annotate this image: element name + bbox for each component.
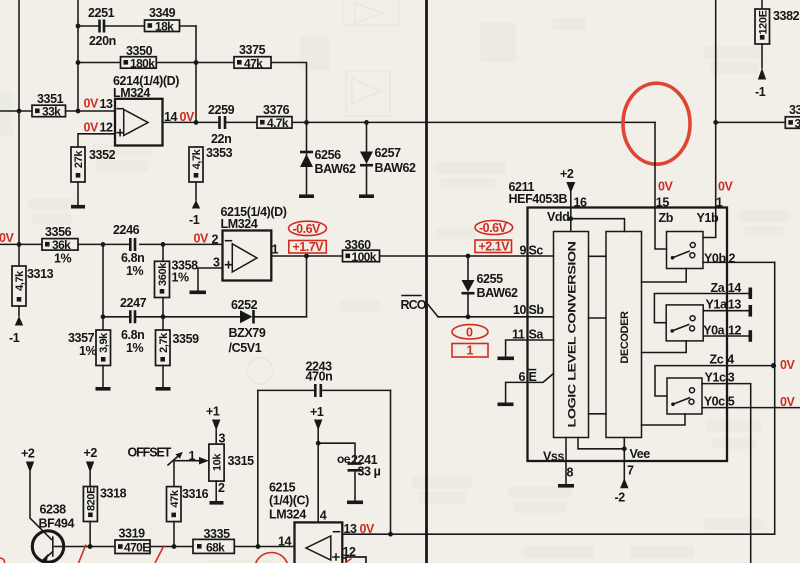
svg-text:120E: 120E bbox=[757, 10, 769, 34]
junction dots on output row bbox=[304, 120, 369, 125]
wire: 6215D output row y=256 bbox=[271, 254, 553, 259]
svg-text:6257: 6257 bbox=[375, 146, 402, 160]
svg-text:RCO: RCO bbox=[401, 298, 427, 312]
svg-text:27k: 27k bbox=[73, 150, 85, 168]
svg-text:0V: 0V bbox=[718, 180, 733, 194]
svg-text:(1/4)(C): (1/4)(C) bbox=[269, 494, 309, 508]
svg-text:68k: 68k bbox=[206, 541, 225, 555]
svg-text:-1: -1 bbox=[9, 331, 20, 345]
svg-text:47k: 47k bbox=[244, 56, 263, 70]
svg-text:8: 8 bbox=[567, 466, 574, 480]
svg-text:1: 1 bbox=[716, 196, 723, 210]
resistor R3357 3,9k 1% bbox=[68, 317, 111, 387]
svg-text:BAW62: BAW62 bbox=[477, 286, 519, 300]
svg-text:6.8n: 6.8n bbox=[121, 251, 144, 265]
resistor R3359 2,7k bbox=[156, 317, 200, 387]
svg-text:+2: +2 bbox=[560, 167, 574, 181]
red annotation -0.6V oval near 6215D bbox=[289, 221, 327, 236]
svg-text:220n: 220n bbox=[89, 34, 116, 48]
wire: 3357 branch vertical bbox=[102, 244, 104, 316]
svg-text:15: 15 bbox=[656, 196, 670, 210]
svg-text:BAW62: BAW62 bbox=[375, 161, 417, 175]
svg-text:+2.1V: +2.1V bbox=[479, 240, 511, 254]
svg-text:+1: +1 bbox=[206, 405, 220, 419]
svg-text:6215: 6215 bbox=[269, 481, 296, 495]
svg-text:-0.6V: -0.6V bbox=[293, 222, 322, 236]
supply arrow +2 for transistor collector bbox=[21, 447, 52, 540]
svg-text:360k: 360k bbox=[157, 262, 169, 286]
node: Y0c pin 5 with 0V bbox=[702, 395, 800, 410]
svg-text:Zc: Zc bbox=[710, 353, 724, 367]
svg-text:3356: 3356 bbox=[45, 225, 72, 239]
red annotation -0.6V oval near Sc bbox=[475, 221, 513, 236]
svg-text:oe: oe bbox=[337, 452, 351, 466]
node: Y1c pin 3 bbox=[702, 371, 751, 563]
svg-text:47k: 47k bbox=[169, 489, 181, 507]
ground for V6257 bbox=[359, 194, 374, 198]
pin Vss with ground bbox=[543, 438, 574, 486]
diode V6255 BAW62 bbox=[462, 256, 519, 317]
red annotation +2.1V box near Sc bbox=[475, 240, 512, 254]
node: Zc pin 4 with 0V bbox=[655, 353, 795, 397]
svg-text:6255: 6255 bbox=[477, 272, 504, 286]
svg-text:/C5V1: /C5V1 bbox=[229, 341, 262, 355]
capacitor C2241 33u electrolytic bbox=[318, 443, 380, 502]
svg-text:3318: 3318 bbox=[100, 487, 127, 501]
node: 10 Sb pin bbox=[513, 303, 544, 317]
svg-text:0: 0 bbox=[466, 326, 473, 340]
resistor R3353 4,7k bbox=[189, 146, 233, 200]
svg-text:33k: 33k bbox=[42, 105, 61, 119]
resistor R3316 47k bbox=[167, 487, 209, 547]
svg-text:BAW62: BAW62 bbox=[315, 162, 357, 176]
svg-text:5: 5 bbox=[728, 395, 735, 409]
red circle annotation around node bbox=[623, 83, 690, 164]
wires: connectors between inner boxes bbox=[589, 256, 607, 414]
wire: output node down to zener row bbox=[306, 256, 308, 317]
op-amp U6214 (1/4)(D) LM324 bbox=[113, 74, 179, 146]
svg-text:LM324: LM324 bbox=[269, 508, 306, 522]
svg-text:Sb: Sb bbox=[529, 303, 545, 317]
diode V6257 BAW62 bbox=[360, 122, 416, 195]
red annotation marks at bottom edge bbox=[0, 545, 352, 563]
svg-text:33: 33 bbox=[789, 103, 800, 117]
supply arrow -1 for R3382 bbox=[755, 68, 766, 99]
main bus thick vertical bbox=[425, 0, 428, 563]
svg-text:3,9k: 3,9k bbox=[98, 332, 110, 353]
node: pin 15 Zb with 0V bbox=[655, 122, 674, 249]
svg-text:0V: 0V bbox=[194, 232, 209, 246]
svg-text:3375: 3375 bbox=[239, 43, 266, 57]
svg-text:OFFSET: OFFSET bbox=[128, 446, 172, 460]
svg-text:4: 4 bbox=[320, 509, 327, 523]
svg-text:Vss: Vss bbox=[543, 450, 564, 464]
svg-text:3353: 3353 bbox=[206, 146, 233, 160]
svg-text:0V: 0V bbox=[84, 121, 99, 135]
svg-text:6.8n: 6.8n bbox=[121, 328, 144, 342]
wire: decoder control to switch a bbox=[642, 341, 687, 353]
svg-text:470n: 470n bbox=[306, 370, 333, 384]
resistor R3351 33k bbox=[0, 92, 115, 119]
svg-text:1: 1 bbox=[272, 243, 279, 257]
supply arrow +1 for pot R3315 bbox=[206, 405, 226, 446]
resistor R3376 4,7k bbox=[257, 103, 292, 130]
node: 0V 2 pin label bbox=[194, 232, 219, 247]
resistor R3335 68k bbox=[193, 527, 234, 555]
wire: 6215C output long row y=534.2 bbox=[342, 532, 774, 537]
svg-text:3376: 3376 bbox=[263, 103, 290, 117]
svg-text:+2: +2 bbox=[21, 447, 35, 461]
svg-text:2: 2 bbox=[729, 252, 736, 266]
node: 11 Sa pin and ground bbox=[498, 328, 554, 359]
resistor R3356 36k 1% bbox=[0, 225, 223, 266]
ground for V6256 bbox=[299, 194, 314, 198]
capacitor C2247 6,8n 1% bbox=[101, 296, 166, 355]
wire: decoder control to switch c bbox=[642, 414, 686, 425]
svg-text:18k: 18k bbox=[155, 20, 174, 34]
svg-text:10k: 10k bbox=[212, 453, 224, 471]
resistor R33xx partial right edge bbox=[716, 103, 800, 130]
resistor R3358 360k 1% bbox=[155, 244, 199, 316]
svg-text:-0.6V: -0.6V bbox=[479, 221, 508, 235]
resistor R3360 100k bbox=[343, 238, 380, 264]
resistor R3350 180k bbox=[78, 44, 196, 70]
transistor Q6238 BF494 bbox=[32, 503, 74, 563]
svg-text:3315: 3315 bbox=[228, 454, 255, 468]
diode V6256 BAW62 bbox=[300, 122, 356, 195]
svg-text:4,7k: 4,7k bbox=[191, 148, 203, 169]
svg-text:Zb: Zb bbox=[659, 211, 674, 225]
svg-text:6256: 6256 bbox=[315, 148, 342, 162]
svg-text:33 µ: 33 µ bbox=[358, 464, 381, 478]
svg-text:Sc: Sc bbox=[529, 244, 544, 258]
ground for R3359 bbox=[156, 387, 171, 391]
svg-text:3359: 3359 bbox=[173, 332, 200, 346]
svg-text:7: 7 bbox=[627, 464, 634, 478]
svg-text:0V: 0V bbox=[658, 180, 673, 194]
potentiometer wiper arrow into R3315 bbox=[174, 457, 209, 487]
node: Y0a pin 12 with terminal bbox=[703, 324, 750, 342]
node: 9 Sc pin bbox=[520, 244, 544, 258]
svg-text:100k: 100k bbox=[352, 250, 377, 264]
svg-text:3352: 3352 bbox=[89, 148, 116, 162]
node Vee with supply arrow -2 bbox=[578, 438, 650, 505]
switch a box bbox=[666, 305, 703, 341]
node: Za pin 14 with terminal bbox=[654, 281, 750, 323]
node: pin 1 Y1b with 0V bbox=[697, 180, 734, 238]
wire: feedback node vertical at x=78 bbox=[76, 0, 81, 113]
svg-text:3313: 3313 bbox=[27, 267, 54, 281]
svg-text:22n: 22n bbox=[211, 132, 231, 146]
svg-text:Vdd: Vdd bbox=[547, 210, 569, 224]
svg-text:0V: 0V bbox=[780, 358, 795, 372]
svg-text:2,7k: 2,7k bbox=[158, 332, 170, 353]
svg-text:1%: 1% bbox=[126, 341, 144, 355]
svg-text:1%: 1% bbox=[172, 271, 190, 285]
svg-text:-1: -1 bbox=[189, 213, 200, 227]
capacitor C2243 470n feedback bbox=[258, 360, 391, 547]
supply arrow -1 for R3313 bbox=[9, 316, 23, 345]
svg-text:4,7k: 4,7k bbox=[267, 116, 289, 130]
svg-text:DECODER: DECODER bbox=[619, 311, 631, 364]
node: 0V 12 pin label bbox=[84, 121, 114, 135]
resistor R3349 18k bbox=[145, 6, 197, 34]
svg-text:-1: -1 bbox=[755, 85, 766, 99]
svg-text:+1.7V: +1.7V bbox=[293, 240, 325, 254]
svg-text:2259: 2259 bbox=[208, 103, 235, 117]
svg-text:180k: 180k bbox=[130, 56, 155, 70]
svg-text:6238: 6238 bbox=[40, 503, 67, 517]
svg-text:1%: 1% bbox=[126, 264, 144, 278]
wire: Y0b/Zc vertical to bottom row bbox=[774, 262, 776, 534]
svg-text:LM324: LM324 bbox=[221, 217, 258, 231]
label OFFSET with adjust arrow bbox=[128, 446, 196, 466]
svg-text:BZX79: BZX79 bbox=[229, 326, 266, 340]
wire: feedback vertical x=196 with R3353 branch bbox=[194, 26, 199, 125]
supply arrow +1 for 6215C bbox=[310, 405, 327, 523]
svg-text:9: 9 bbox=[520, 244, 527, 258]
svg-text:3316: 3316 bbox=[182, 487, 209, 501]
svg-text:4,7k: 4,7k bbox=[14, 270, 26, 291]
op-amp U6215 (1/4)(C) LM324 bbox=[269, 481, 342, 563]
switch c box bbox=[667, 378, 702, 414]
svg-text:0V: 0V bbox=[84, 97, 99, 111]
capacitor C2246 6,8n 1% bbox=[101, 223, 166, 278]
wire: pin12 to R3352 bbox=[78, 134, 115, 147]
resistor R3382 120E bbox=[755, 0, 800, 68]
potentiometer R3315 10k bbox=[209, 444, 254, 503]
svg-text:4: 4 bbox=[727, 353, 734, 367]
svg-text:2251: 2251 bbox=[88, 6, 115, 20]
switch b box bbox=[667, 232, 704, 269]
svg-text:3: 3 bbox=[728, 371, 735, 385]
svg-text:36k: 36k bbox=[52, 238, 71, 252]
capacitor C2259 22n bbox=[208, 103, 235, 146]
red annotation +1.7V box near 6215D bbox=[289, 240, 327, 254]
node Vdd bbox=[547, 210, 625, 232]
svg-text:Vee: Vee bbox=[630, 447, 651, 461]
resistor R3318 820E bbox=[83, 487, 126, 547]
wire: decoder control to switch b bbox=[642, 269, 687, 283]
svg-text:0V: 0V bbox=[0, 231, 14, 245]
svg-text:2246: 2246 bbox=[113, 223, 140, 237]
svg-text:6252: 6252 bbox=[231, 298, 258, 312]
node: 13 0V output label bbox=[344, 522, 375, 536]
node: 6 E-bar pin and ground bbox=[498, 370, 554, 405]
svg-text:3357: 3357 bbox=[68, 331, 95, 345]
svg-text:HEF4053B: HEF4053B bbox=[509, 192, 568, 206]
wire: left vertical rail from top to R3313 bbox=[17, 0, 22, 266]
svg-text:BF494: BF494 bbox=[39, 517, 75, 531]
wire: base row y=546.5 bbox=[64, 544, 295, 549]
svg-text:Y1c: Y1c bbox=[705, 371, 726, 385]
wire: Sb row to logic box bbox=[438, 314, 554, 319]
inner box: LOGIC LEVEL CONVERSION bbox=[554, 232, 589, 438]
svg-text:13: 13 bbox=[100, 97, 114, 111]
svg-text:LOGIC LEVEL CONVERSION: LOGIC LEVEL CONVERSION bbox=[567, 241, 579, 428]
svg-text:1%: 1% bbox=[54, 252, 72, 266]
svg-text:0V: 0V bbox=[780, 395, 795, 409]
svg-text:470E: 470E bbox=[124, 541, 150, 555]
svg-text:Y1a: Y1a bbox=[706, 298, 728, 312]
svg-text:2: 2 bbox=[218, 481, 225, 495]
svg-text:12: 12 bbox=[100, 121, 114, 135]
ground for R3357 bbox=[96, 387, 111, 391]
resistor R3313 4,7k bbox=[12, 266, 54, 316]
svg-text:3319: 3319 bbox=[119, 527, 146, 541]
pin 3 wire and ground bbox=[190, 256, 223, 293]
svg-text:1: 1 bbox=[467, 344, 474, 358]
node: Y0b pin 2 bbox=[703, 252, 775, 266]
supply arrow +2 for Vdd pin 16 bbox=[560, 167, 587, 219]
svg-text:16: 16 bbox=[574, 196, 588, 210]
resistor R3352 27k bbox=[71, 147, 116, 205]
svg-text:-2: -2 bbox=[615, 491, 626, 505]
svg-text:+2: +2 bbox=[84, 446, 98, 460]
supply arrow +2 for R3318 bbox=[84, 446, 98, 487]
node: 14 0V output label bbox=[164, 110, 195, 124]
svg-text:Y0c: Y0c bbox=[704, 395, 725, 409]
diode V6252 BZX79/C5V1 bbox=[163, 298, 307, 355]
svg-text:2: 2 bbox=[212, 232, 219, 246]
node: 0V 13 pin label bbox=[84, 97, 114, 111]
svg-text:3: 3 bbox=[795, 116, 800, 130]
inner box: DECODER bbox=[606, 232, 642, 438]
svg-text:2247: 2247 bbox=[120, 296, 147, 310]
red annotation box 1 bbox=[452, 344, 488, 358]
svg-text:+1: +1 bbox=[310, 405, 324, 419]
red annotation oval 0 bbox=[452, 325, 488, 340]
svg-text:820E: 820E bbox=[85, 487, 97, 511]
resistor R3375 47k bbox=[196, 43, 307, 122]
resistor R3319 470E bbox=[115, 527, 150, 555]
node: pin 12 with partial resistor bbox=[342, 545, 366, 563]
wire: top-right vertical into pin 1 bbox=[713, 0, 718, 208]
node: Y1a pin 13 with terminal bbox=[703, 298, 750, 317]
capacitor C2251 220n bbox=[78, 6, 145, 48]
svg-text:13: 13 bbox=[728, 298, 742, 312]
svg-text:1%: 1% bbox=[79, 344, 97, 358]
net RCO bus tap bbox=[401, 296, 439, 317]
svg-text:3349: 3349 bbox=[149, 6, 176, 20]
supply arrow -1 for R3353 bbox=[189, 200, 200, 227]
wire: 6214 output row y=122.4 bbox=[163, 121, 656, 123]
svg-text:10: 10 bbox=[513, 303, 527, 317]
svg-text:14: 14 bbox=[278, 534, 292, 548]
svg-text:3382: 3382 bbox=[773, 9, 800, 23]
svg-text:Y0b: Y0b bbox=[704, 252, 726, 266]
IC U6211 HEF4053B outer box bbox=[509, 180, 728, 461]
op-amp U6215 (1/4)(D) LM324 bbox=[221, 205, 287, 281]
ground for R3352 bbox=[71, 205, 85, 209]
